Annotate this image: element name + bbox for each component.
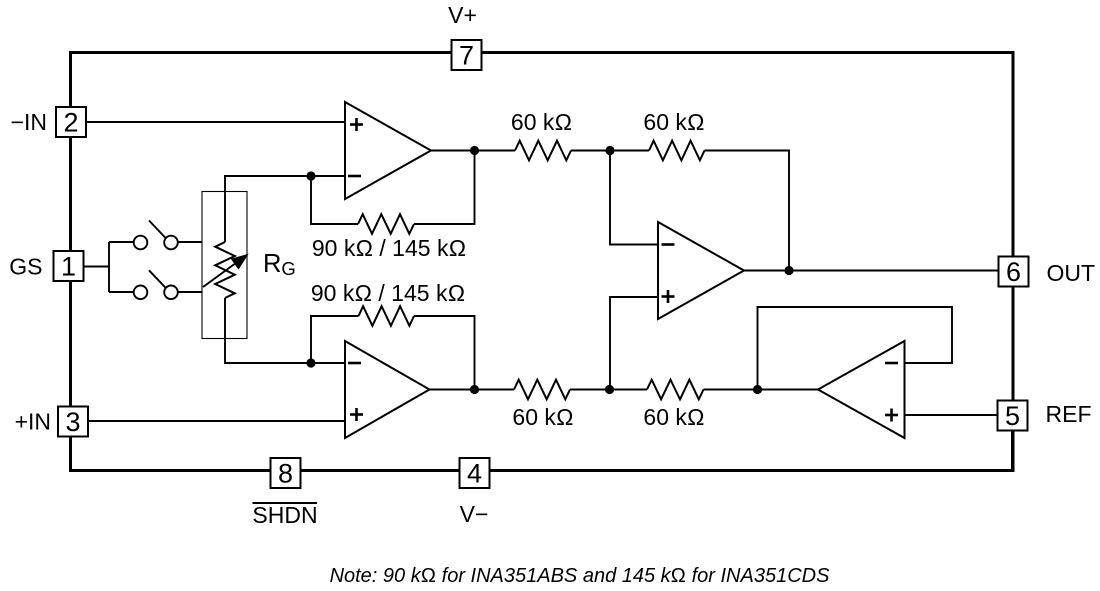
node A1 out xyxy=(470,146,479,155)
pin 1 box xyxy=(54,251,84,281)
op-amp U3 (output amp) xyxy=(658,222,744,319)
svg-text:SHDN: SHDN xyxy=(252,502,317,528)
svg-text:60 kΩ: 60 kΩ xyxy=(643,109,704,135)
wire R5 to node N2 xyxy=(570,389,647,391)
svg-text:+IN: +IN xyxy=(15,409,51,435)
svg-text:Note: 90 kΩ for INA351ABS and: Note: 90 kΩ for INA351ABS and 145 kΩ for… xyxy=(330,565,831,587)
svg-text:GS: GS xyxy=(9,254,42,280)
resistor RG (vertical zigzag) xyxy=(215,242,235,298)
wire U4 + input to pin5 xyxy=(905,414,998,416)
svg-text:60 kΩ: 60 kΩ xyxy=(512,404,573,430)
node A2 out xyxy=(470,385,479,394)
switch S2 (lower) xyxy=(109,270,202,299)
resistor R5 60k (bottom left) xyxy=(514,380,570,400)
pin 8 box xyxy=(271,458,301,488)
wire R6 to REF buffer xyxy=(704,389,819,391)
resistor R1 90k/145k xyxy=(358,214,414,234)
resistor R3 60k (top left) xyxy=(515,141,571,161)
wire A2 output xyxy=(430,389,515,391)
switch S1 (upper) xyxy=(109,221,202,250)
svg-text:OUT: OUT xyxy=(1047,260,1096,286)
svg-text:90 kΩ / 145 kΩ: 90 kΩ / 145 kΩ xyxy=(312,235,466,261)
svg-text:8: 8 xyxy=(278,458,293,488)
wire pin2 to op-amp A1 + input xyxy=(86,121,345,123)
node U3 out xyxy=(784,266,793,275)
node N2 xyxy=(605,385,614,394)
wire A2 - input xyxy=(311,362,345,364)
wire R1 to A1 output xyxy=(414,151,475,225)
svg-text:1: 1 xyxy=(61,251,76,281)
svg-text:4: 4 xyxy=(467,458,482,488)
wire pin1 to switch split xyxy=(84,266,110,268)
resistor R4 60k (top right) xyxy=(649,141,705,161)
op-amp A2 xyxy=(345,341,430,438)
pin 3 box xyxy=(58,407,88,437)
wire N2 to U3 + input xyxy=(610,297,658,390)
IC outer boundary box xyxy=(71,53,1014,471)
pin 4 box xyxy=(460,458,490,488)
wire R2 to A2 output xyxy=(414,316,475,390)
wire R3 to node N1 xyxy=(571,150,649,152)
svg-text:90 kΩ / 145 kΩ: 90 kΩ / 145 kΩ xyxy=(311,280,465,306)
pin 5 box xyxy=(998,401,1028,431)
RG enclosure box xyxy=(202,192,247,339)
wire A1 - input xyxy=(311,175,345,177)
node A2- xyxy=(306,358,315,367)
wire switch split vertical xyxy=(108,242,110,292)
op-amp U4 (REF buffer, pointing left) xyxy=(818,341,905,438)
svg-text:RG: RG xyxy=(263,250,296,279)
wire U4 feedback loop xyxy=(758,307,953,390)
pin 7 box xyxy=(452,40,482,70)
wire N1 to U3 - input xyxy=(610,151,658,245)
wire pin3 to op-amp A2 + input xyxy=(88,420,345,422)
wire pin5 to bottom rail xyxy=(1011,431,1014,470)
node N1 xyxy=(605,146,614,155)
svg-text:−IN: −IN xyxy=(11,109,47,135)
svg-text:REF: REF xyxy=(1046,401,1092,427)
svg-text:V−: V− xyxy=(460,501,489,527)
pin 2 box xyxy=(56,107,86,137)
resistor R6 60k (bottom right) xyxy=(647,380,704,400)
wire RG top to node A1- xyxy=(225,176,311,242)
svg-text:60 kΩ: 60 kΩ xyxy=(643,404,704,430)
svg-text:3: 3 xyxy=(65,407,80,437)
svg-text:V+: V+ xyxy=(448,2,477,28)
op-amp A1 xyxy=(345,102,431,199)
resistor R2 90k/145k xyxy=(359,306,415,326)
svg-text:5: 5 xyxy=(1005,401,1020,431)
wire A1 output xyxy=(431,150,515,152)
wire A2 feedback up/right xyxy=(311,316,359,363)
svg-text:2: 2 xyxy=(63,107,78,137)
RG wiper arrow xyxy=(203,262,238,288)
svg-text:7: 7 xyxy=(459,40,474,70)
wire R4 to U3 output node xyxy=(705,151,790,271)
pin 6 box xyxy=(999,257,1029,287)
wire RG bottom to node A2- xyxy=(225,298,311,363)
node A1- xyxy=(306,171,315,180)
wire U3 output to pin6 xyxy=(744,270,999,272)
node N3 xyxy=(753,385,762,394)
svg-text:60 kΩ: 60 kΩ xyxy=(511,109,572,135)
wire A1 feedback down/right xyxy=(311,176,358,224)
svg-text:6: 6 xyxy=(1006,257,1021,287)
